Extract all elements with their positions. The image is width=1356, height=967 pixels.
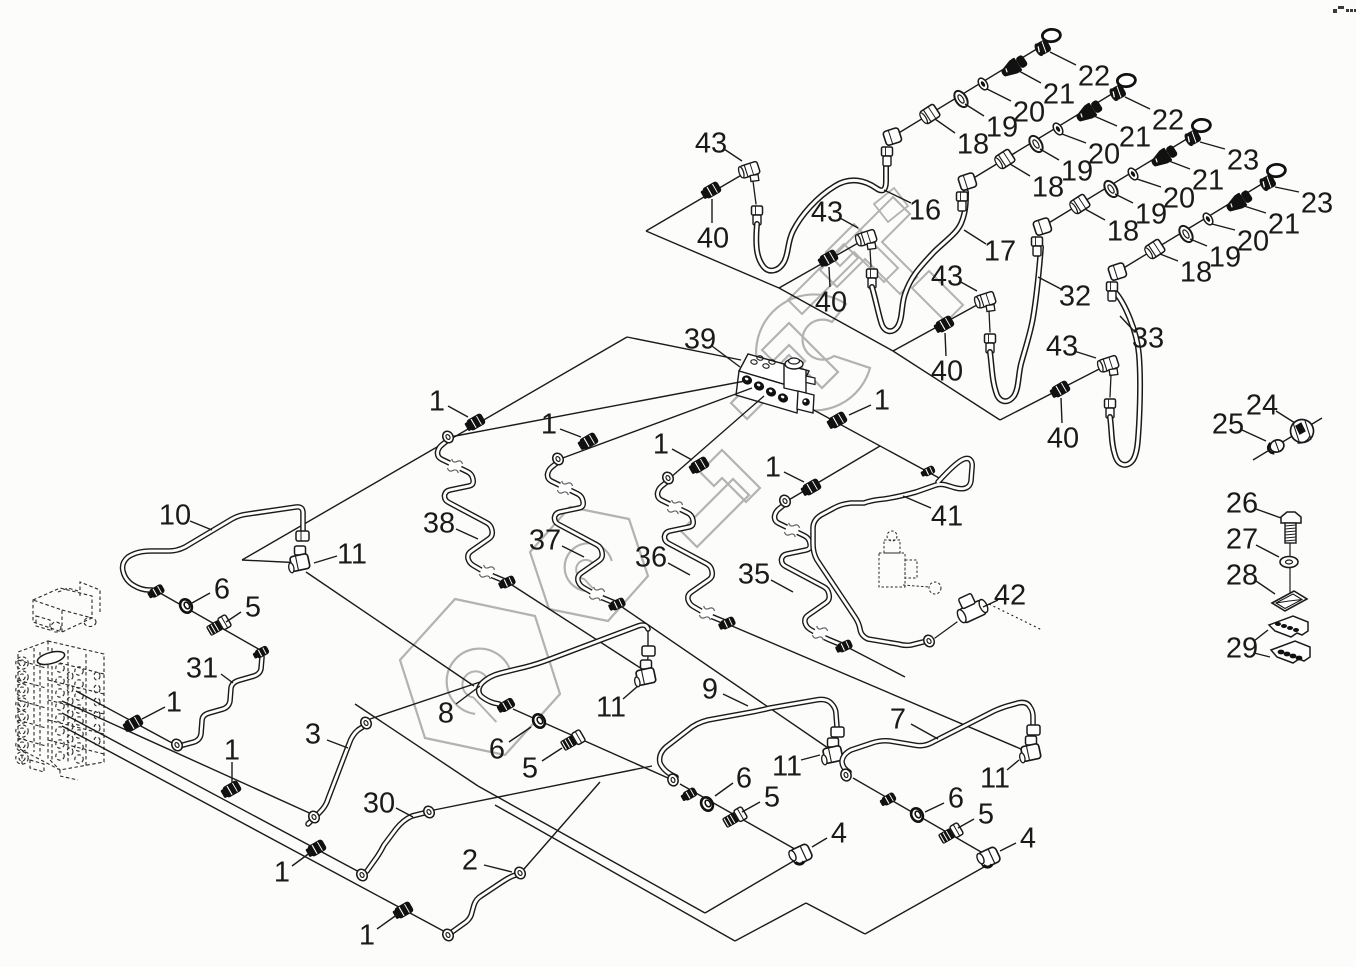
label 40 d2 xyxy=(0,0,1,1)
svg-text:1: 1 xyxy=(166,686,182,718)
ghost solenoid ref xyxy=(879,531,941,594)
label 20 c1 xyxy=(987,89,1045,128)
svg-text:7: 7 xyxy=(890,703,906,735)
label 26 xyxy=(1226,487,1281,519)
elbow chain chain3 xyxy=(1033,217,1053,236)
feed line F4 xyxy=(62,726,449,934)
ring pipe30 end low xyxy=(355,867,370,882)
label 11 pipe9 xyxy=(772,750,820,782)
pipe 38 xyxy=(437,440,505,581)
elbow chain chain1 xyxy=(883,127,903,146)
elbow 11 of pipe 10 xyxy=(287,546,311,573)
svg-text:23: 23 xyxy=(1227,144,1259,176)
label 20 c3 xyxy=(1137,179,1195,214)
label 9 xyxy=(702,673,748,706)
cap 23 chain4 xyxy=(1258,164,1286,192)
svg-text:28: 28 xyxy=(1226,559,1258,591)
svg-text:1: 1 xyxy=(541,408,557,440)
svg-text:21: 21 xyxy=(1043,78,1075,110)
pipe 9 xyxy=(660,699,837,777)
pipe 35 xyxy=(774,504,842,645)
frame line mid-left xyxy=(242,337,741,686)
svg-text:1: 1 xyxy=(653,428,669,460)
line 37 to elbow11c xyxy=(622,607,828,748)
seal ring 20 chain2 xyxy=(1051,121,1065,136)
label 4 grp7 xyxy=(1000,822,1036,854)
label 1 on F3 xyxy=(274,852,311,888)
ring pipe2 top xyxy=(513,865,528,880)
label 43 a xyxy=(695,127,742,161)
svg-text:25: 25 xyxy=(1212,408,1244,440)
label 30 xyxy=(363,787,413,819)
label 29 xyxy=(1226,630,1270,664)
elbow 43 d xyxy=(1096,355,1119,375)
hose nut chain chain4 xyxy=(1107,282,1118,301)
label 40 c xyxy=(931,333,963,387)
nut pipe8 right xyxy=(642,646,655,656)
svg-text:43: 43 xyxy=(811,196,843,228)
hose nut 33 left xyxy=(1105,399,1116,418)
pipe 7 xyxy=(842,703,1033,773)
hose nut chain chain1 xyxy=(882,147,893,166)
svg-text:21: 21 xyxy=(1268,208,1300,240)
nut pipe41 top xyxy=(920,465,937,479)
label 19 c2 xyxy=(1040,149,1093,187)
ring pipe37 top xyxy=(551,451,566,466)
label 24 xyxy=(1246,389,1295,423)
label 19 c3 xyxy=(1115,194,1167,230)
nut 1 on F3 xyxy=(304,839,327,859)
svg-text:5: 5 xyxy=(522,752,538,784)
tee fitting 42 xyxy=(935,589,1042,638)
ring pipe38 top xyxy=(441,429,456,444)
nozzle body 21 chain3 xyxy=(1148,143,1179,171)
label 21 c2 xyxy=(1094,116,1151,153)
nut 24 xyxy=(1288,417,1317,446)
elbow 11 of pipe 8 xyxy=(633,660,657,687)
label 4 grp9 xyxy=(812,817,847,849)
svg-text:11: 11 xyxy=(337,538,367,570)
line 35 se xyxy=(849,648,905,677)
label 22 c2 xyxy=(1125,97,1184,136)
label 40 a xyxy=(697,199,729,254)
ring pipe35 top xyxy=(778,493,793,508)
washer 19 chain2 xyxy=(1027,134,1046,155)
label 31 xyxy=(186,652,233,684)
hose 33 xyxy=(1110,292,1140,465)
chain line chain3 xyxy=(1047,137,1190,224)
svg-text:18: 18 xyxy=(1180,256,1212,288)
nut pipe36 bottom xyxy=(717,616,736,632)
svg-text:4: 4 xyxy=(1020,822,1036,854)
elbow 43 b xyxy=(854,229,877,249)
svg-text:9: 9 xyxy=(702,673,718,705)
link 43d xyxy=(1110,375,1111,397)
line 9 fittings xyxy=(680,784,800,852)
elbow chain chain2 xyxy=(958,172,978,191)
svg-text:2: 2 xyxy=(462,844,478,876)
label 21 c1 xyxy=(1019,71,1075,110)
label 21 c4 xyxy=(1244,206,1300,240)
label 23 c3 xyxy=(1200,142,1259,176)
pipe 30 xyxy=(367,813,424,871)
svg-text:43: 43 xyxy=(931,260,963,292)
svg-text:5: 5 xyxy=(245,591,261,623)
svg-text:1: 1 xyxy=(274,856,290,888)
label 10 xyxy=(159,499,212,531)
link 43a xyxy=(753,181,756,204)
feed line F3 xyxy=(62,713,363,874)
label 36 xyxy=(635,541,690,575)
link 43c xyxy=(989,311,990,332)
hose nut 16 left xyxy=(752,206,763,225)
label 43 b xyxy=(811,196,858,228)
svg-text:10: 10 xyxy=(159,499,191,531)
svg-text:17: 17 xyxy=(984,235,1016,267)
nut 40 a xyxy=(699,181,722,201)
label 11 pipe10 xyxy=(314,538,367,570)
svg-text:38: 38 xyxy=(423,507,455,539)
valve block (ref) left xyxy=(16,582,104,780)
pipe 2 xyxy=(452,875,516,932)
label 1 out1 xyxy=(429,385,468,417)
elbow 4 grp7 xyxy=(975,846,1001,870)
label 1 out5 xyxy=(849,384,890,416)
adapter 5 grp8 xyxy=(559,729,585,752)
svg-text:16: 16 xyxy=(909,194,941,226)
svg-text:6: 6 xyxy=(736,762,752,794)
label 8 xyxy=(438,686,480,729)
label 35 xyxy=(738,558,793,592)
frame line bottom zigzag xyxy=(355,704,984,941)
nozzle body 21 chain4 xyxy=(1223,188,1254,216)
svg-text:27: 27 xyxy=(1226,523,1258,555)
ring pipe9 end xyxy=(666,773,680,788)
hose 17 xyxy=(872,192,966,331)
svg-text:29: 29 xyxy=(1226,632,1258,664)
label 33 xyxy=(1120,316,1164,354)
svg-text:4: 4 xyxy=(831,817,847,849)
svg-text:11: 11 xyxy=(596,691,626,723)
label 16 xyxy=(884,190,941,226)
pipe 41 xyxy=(813,458,972,645)
hose 16 xyxy=(756,166,886,271)
label 1 on F4 xyxy=(359,914,398,951)
svg-text:22: 22 xyxy=(1078,60,1110,92)
label 5 upper-left xyxy=(226,591,261,623)
ring pipe2 end low xyxy=(441,927,456,942)
seal ring 20 chain4 xyxy=(1201,211,1215,226)
label 2 xyxy=(462,844,512,876)
label 42 xyxy=(983,579,1026,611)
line manifold out3 xyxy=(670,396,764,478)
chain line chain4 xyxy=(1122,182,1265,269)
elbow 11 of pipe 9 xyxy=(820,738,844,765)
nut 1 on F1 xyxy=(121,714,144,734)
seal ring 20 chain3 xyxy=(1126,166,1140,181)
svg-text:43: 43 xyxy=(1046,330,1078,362)
label 11 pipe8 xyxy=(596,686,638,723)
ring pipe30 top xyxy=(422,804,437,819)
label 3 xyxy=(305,718,348,750)
washer 19 chain3 xyxy=(1102,179,1121,200)
label 40 d xyxy=(1047,398,1079,454)
feed line F2 xyxy=(62,701,316,816)
nozzle body 21 chain1 xyxy=(998,53,1029,81)
nut 1 on F4 xyxy=(391,901,414,921)
nut pipe38 bottom xyxy=(497,575,516,591)
nut pipe37 bottom xyxy=(607,597,626,613)
label 20 c2 xyxy=(1062,134,1120,170)
label 40 b xyxy=(815,267,847,318)
nut pipe8 end xyxy=(496,697,517,715)
nut pipe35 bottom xyxy=(834,639,853,655)
line manifold out1 xyxy=(450,381,745,437)
line 7 fittings xyxy=(853,778,988,856)
ring nut 6 grp8 xyxy=(531,712,548,730)
label 25 xyxy=(1212,408,1266,441)
line pipe30 up xyxy=(434,766,652,810)
hose nut chain chain3 xyxy=(1032,237,1043,256)
svg-text:42: 42 xyxy=(994,579,1026,611)
svg-text:33: 33 xyxy=(1132,322,1164,354)
line pipe2 up xyxy=(524,782,600,869)
seal ring 20 chain1 xyxy=(976,76,990,91)
watermark logo (gray) xyxy=(400,188,963,755)
svg-text:39: 39 xyxy=(684,323,716,355)
svg-text:23: 23 xyxy=(1301,187,1333,219)
cap 22 chain1 xyxy=(1033,29,1061,57)
nut 1 out4 xyxy=(799,478,822,498)
union nut 18 chain1 xyxy=(918,104,941,126)
hose nut chain chain2 xyxy=(957,192,968,211)
link 43b xyxy=(870,249,871,267)
nut pipe10 right xyxy=(296,531,309,541)
label 1 out4 xyxy=(765,451,804,483)
label 1 on F1 xyxy=(142,686,182,719)
nut 1 out1 xyxy=(463,413,486,433)
union nut 18 chain2 xyxy=(993,149,1016,171)
label 19 c1 xyxy=(965,104,1018,143)
label 5 grp8 xyxy=(522,748,562,784)
union nut 18 chain3 xyxy=(1068,194,1091,216)
cap 22 chain2 xyxy=(1108,74,1136,102)
svg-text:1: 1 xyxy=(874,384,890,416)
elbow 11 of pipe 7 xyxy=(1018,736,1042,763)
hose 32 xyxy=(990,247,1041,401)
ring pipe31 end xyxy=(170,737,185,752)
svg-text:11: 11 xyxy=(980,762,1010,794)
ring nut 6 upper-left xyxy=(178,597,195,615)
label 43 c xyxy=(931,260,977,292)
ring nut 6 grp9 xyxy=(699,795,716,813)
svg-text:43: 43 xyxy=(695,127,727,159)
svg-text:40: 40 xyxy=(697,222,729,254)
label 18 c1 xyxy=(935,119,989,160)
svg-text:41: 41 xyxy=(931,500,963,532)
line pipe10 to 31 xyxy=(160,593,262,651)
nut pipe9 right xyxy=(831,727,844,737)
label 43 d xyxy=(1046,330,1096,362)
label 18 c2 xyxy=(1010,164,1064,203)
ring pipe36 top xyxy=(661,470,676,485)
nut grp9 xyxy=(680,786,699,802)
line manifold out4 xyxy=(787,446,880,501)
ring pipe7 end xyxy=(839,768,853,783)
svg-text:1: 1 xyxy=(224,734,240,766)
svg-text:8: 8 xyxy=(438,697,454,729)
pipe 3 xyxy=(308,726,364,824)
svg-text:32: 32 xyxy=(1059,280,1091,312)
pipe 37 xyxy=(547,462,615,603)
nut 1 out5 xyxy=(825,411,848,431)
svg-text:6: 6 xyxy=(489,733,505,765)
label 1 on F2 xyxy=(224,734,240,783)
svg-text:5: 5 xyxy=(764,781,780,813)
svg-text:40: 40 xyxy=(1047,422,1079,454)
nut 40 b xyxy=(816,249,839,269)
label 6 upper-left xyxy=(192,573,230,605)
label 39 xyxy=(684,323,740,367)
corner marks xyxy=(1333,6,1356,13)
svg-text:6: 6 xyxy=(948,782,964,814)
stem 26-29 xyxy=(1289,543,1291,598)
svg-text:40: 40 xyxy=(931,355,963,387)
nozzle body 21 chain2 xyxy=(1073,98,1104,126)
bolt 26 xyxy=(1281,512,1301,543)
svg-text:1: 1 xyxy=(359,919,375,951)
label 18 c4 xyxy=(1160,254,1212,288)
nut pipe7 right xyxy=(1027,725,1040,735)
chain line chain1 xyxy=(897,47,1040,134)
nut 1 out2 xyxy=(576,432,599,452)
elbow 43 c xyxy=(973,291,996,311)
cap 25 xyxy=(1266,438,1285,455)
elbow chain chain4 xyxy=(1108,262,1128,281)
ring pipe3 end low xyxy=(307,809,322,824)
nut 1 out3 xyxy=(687,456,710,476)
label 18 c3 xyxy=(1085,209,1139,247)
svg-text:20: 20 xyxy=(1237,225,1269,257)
label 38 xyxy=(423,507,478,539)
label 32 xyxy=(1038,277,1091,312)
line 38 to elbow11b xyxy=(512,585,642,669)
label 23 c4 xyxy=(1275,187,1333,219)
line pipe3 up xyxy=(370,682,480,719)
pipe 10 xyxy=(123,507,303,590)
line manifold to pipe 41 xyxy=(810,408,941,479)
clamp halves 29 xyxy=(1269,616,1310,663)
adapter 5 grp7 xyxy=(937,822,963,845)
svg-text:35: 35 xyxy=(738,558,770,590)
svg-text:11: 11 xyxy=(772,750,802,782)
svg-text:18: 18 xyxy=(1032,171,1064,203)
label 22 c1 xyxy=(1050,52,1110,92)
elbow 43 a xyxy=(737,161,760,181)
svg-text:30: 30 xyxy=(363,787,395,819)
nut 40 c xyxy=(932,315,955,335)
elbow 4 grp9 xyxy=(787,843,813,867)
ring pipe3 top xyxy=(359,715,374,730)
svg-text:21: 21 xyxy=(1192,164,1224,196)
label 6 grp7 xyxy=(925,782,964,814)
svg-text:3: 3 xyxy=(305,718,321,750)
label 20 c4 xyxy=(1212,224,1269,257)
label 5 grp9 xyxy=(742,781,780,813)
washer 27 xyxy=(1280,557,1298,568)
svg-text:18: 18 xyxy=(957,128,989,160)
label 28 xyxy=(1226,559,1275,594)
svg-text:37: 37 xyxy=(529,524,561,556)
svg-text:6: 6 xyxy=(214,573,230,605)
svg-text:20: 20 xyxy=(1163,182,1195,214)
adapter 5 upper-left xyxy=(205,614,231,637)
svg-text:1: 1 xyxy=(429,385,445,417)
label 6 grp9 xyxy=(715,762,752,796)
cap 23 chain3 xyxy=(1183,119,1211,147)
cover plate 28 xyxy=(1272,591,1307,611)
link 11d xyxy=(1032,736,1033,745)
svg-text:26: 26 xyxy=(1226,487,1258,519)
svg-text:21: 21 xyxy=(1119,121,1151,153)
label 41 xyxy=(903,496,963,532)
pipe 31 xyxy=(183,657,262,745)
hose nut 17 left xyxy=(867,269,878,288)
manifold block 39 xyxy=(736,354,815,413)
line 8 fittings xyxy=(513,709,668,778)
adapter 5 grp9 xyxy=(721,806,747,829)
label 11 pipe7 xyxy=(980,760,1019,794)
link 11b xyxy=(647,657,648,666)
union nut 18 chain4 xyxy=(1143,239,1166,261)
washer 19 chain4 xyxy=(1177,224,1196,245)
label 1 out3 xyxy=(653,428,692,460)
svg-text:20: 20 xyxy=(1013,96,1045,128)
link 11c xyxy=(834,738,836,746)
label 5 grp7 xyxy=(958,798,994,830)
nut grp7 xyxy=(879,791,898,807)
svg-text:36: 36 xyxy=(635,541,667,573)
nut pipe10 end xyxy=(146,583,165,600)
svg-text:31: 31 xyxy=(186,652,218,684)
frame line upper zigzag xyxy=(646,170,1109,420)
feed line F1 xyxy=(76,691,183,748)
label 6 grp8 xyxy=(489,727,531,765)
line through 24-25 xyxy=(1253,418,1322,460)
line manifold out2 xyxy=(560,388,752,459)
label 37 xyxy=(529,524,584,557)
nut 40 d xyxy=(1048,380,1071,400)
line 36 to elbow11d xyxy=(732,626,1028,752)
svg-text:24: 24 xyxy=(1246,389,1278,421)
washer 19 chain1 xyxy=(952,89,971,110)
label 27 xyxy=(1226,523,1279,557)
label 21 c3 xyxy=(1169,161,1224,196)
ring nut 6 grp7 xyxy=(909,806,926,824)
label 1 out2 xyxy=(541,408,581,440)
svg-text:20: 20 xyxy=(1088,138,1120,170)
svg-text:5: 5 xyxy=(978,798,994,830)
hose nut 32 left xyxy=(985,334,996,353)
label 19 c4 xyxy=(1190,239,1241,273)
svg-text:40: 40 xyxy=(815,286,847,318)
label 17 xyxy=(964,230,1016,267)
label 7 xyxy=(890,703,938,739)
nut 1 on F2 xyxy=(219,780,242,800)
pipe 36 xyxy=(657,481,725,622)
svg-text:1: 1 xyxy=(765,451,781,483)
pipe 8 xyxy=(479,625,648,704)
